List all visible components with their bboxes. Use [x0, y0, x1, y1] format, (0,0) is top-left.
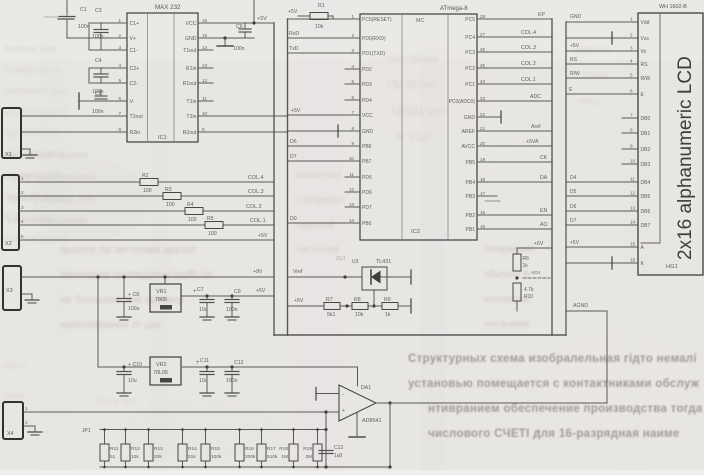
wire PB7 pin10 row — [288, 160, 361, 162]
wire PC4 pin27 row (COL.4) — [477, 36, 552, 38]
node op-amp output — [388, 401, 391, 404]
wire LCD DB5 row pin12 — [566, 195, 638, 197]
voltage regulator VR1 7805 — [150, 284, 181, 312]
wire +9V input row — [21, 276, 274, 278]
LCD pin numbers — [630, 17, 636, 263]
wire op-amp output down to bottom bus — [389, 403, 391, 467]
ground at C10 — [117, 392, 131, 394]
trimmer 4.7k — [513, 283, 521, 301]
voltage regulator VR2 78L05 — [150, 357, 181, 385]
wire +5V row to divider — [517, 247, 552, 249]
voltage reference U3 TL431 — [362, 267, 387, 290]
wire VR1 input drop — [164, 277, 166, 284]
IC2 left pin names — [362, 17, 392, 227]
wire AVCC pin20 row — [477, 145, 552, 147]
wire R7 to R8 — [340, 305, 352, 307]
ground at C12 — [225, 392, 239, 394]
wire X2 pin1 row (COL.4) — [19, 181, 140, 183]
ground at C8 — [117, 316, 131, 318]
ground bar at C5 — [78, 93, 80, 109]
ground at X4 — [28, 431, 42, 433]
wire PC0 pin23 row (ADC) — [477, 100, 552, 102]
wire X1 pin2 to R2in — [21, 131, 127, 133]
wire loop bottom edge y=335 — [274, 334, 566, 336]
tick terminal at LCD Vss — [611, 32, 613, 44]
wire X4 pin2 ground stub — [23, 425, 35, 427]
wire X2 pin5 row (+5V) — [19, 239, 274, 241]
wire PD6 pin12 stub — [345, 191, 360, 193]
resistor R2 100 — [140, 179, 158, 186]
wire PD7 pin13 stub — [345, 206, 360, 208]
IC1 right pin names — [183, 21, 197, 136]
wire AGND row to rail — [566, 310, 607, 312]
wire LCD Vo row pin3 — [566, 50, 638, 52]
tick terminal at LCD K — [611, 257, 613, 269]
wire X1 pin1 to T2out — [21, 115, 127, 117]
wire PB5 pin19 row (CK) — [477, 161, 552, 163]
resistor R19 2M — [317, 430, 319, 445]
ground at C7 — [200, 316, 214, 318]
tick terminal at divider out — [410, 299, 412, 313]
wire LCD bundle rail vertical x=566 — [565, 22, 567, 335]
wire op-amp V- to ground — [356, 413, 358, 436]
wire trimmer wiper (dashed) — [523, 277, 550, 279]
wire Vref row — [288, 276, 363, 278]
tick terminal at Vref out — [410, 270, 412, 284]
wire PB1 pin15 row (AO) — [477, 228, 552, 230]
wire LCD DB4 row pin11 — [566, 181, 638, 183]
node at C10 — [122, 365, 125, 368]
wire RxD row to PD0 pin2 — [288, 37, 361, 39]
wire R1out pin12 stub — [198, 82, 213, 84]
wire +input riser — [325, 412, 327, 467]
ground tick at IC2 GND — [337, 125, 339, 137]
ground at X1 — [23, 154, 37, 156]
IC2 pin numbers — [349, 14, 486, 229]
connector X1 — [2, 108, 21, 158]
node at C12 — [230, 365, 233, 368]
resistor R5 100 — [205, 222, 223, 229]
resistor R6 1k — [513, 254, 521, 271]
wire +5V output row of VR1 — [181, 295, 274, 297]
wire T2in pin10 row to MCU VCC row — [198, 115, 288, 117]
wire op-amp output to apex — [376, 402, 390, 404]
microcontroller IC2 ATmega-8 body — [360, 14, 477, 240]
fold mark near C1 — [44, 16, 58, 18]
resistor R12 10k — [125, 430, 127, 445]
resistor R14 51k — [182, 430, 184, 445]
wire LCD DB7 row pin14 — [566, 224, 638, 226]
wire R1in pin13 stub — [198, 67, 213, 69]
wire divider row from rail — [288, 305, 325, 307]
wire PC2 pin25 row (COL.2) — [477, 67, 552, 69]
resistor R7 5k1 — [324, 303, 340, 310]
wire C1+ pin1 loop — [89, 23, 127, 50]
tick terminal at inverting input — [315, 388, 317, 401]
wire PC5 pin28 row (KP) — [477, 18, 552, 20]
wire LCD DB6 row pin13 — [566, 210, 638, 212]
wire AGND riser — [606, 311, 608, 403]
node at VR2 branch — [96, 275, 99, 278]
wire LCD DB2 pin9 stub — [622, 148, 638, 150]
LCD module HG1 body — [638, 13, 703, 275]
op-amp DA1 AD8541 — [339, 385, 376, 421]
op-amp ... MAX232 IC1 body — [127, 13, 198, 142]
wire X2 pin2 row (COL.3) — [19, 195, 163, 197]
node at C9 — [230, 294, 233, 297]
wire top bus of divider network — [100, 429, 326, 431]
wire PD4 pin6 stub — [345, 99, 360, 101]
node R8-R9 junction — [372, 304, 375, 307]
LCD pin names — [641, 20, 651, 267]
wire X3 pin2 ground stub — [21, 293, 32, 295]
wire TxD row to PD1 pin3 — [288, 52, 361, 54]
wire LCD E row pin6 — [566, 93, 638, 95]
ground at op-amp — [349, 436, 365, 438]
resistor R9 1k — [382, 303, 398, 310]
node top bus to +input riser — [324, 428, 327, 431]
wire LCD Vdd row pin1 — [566, 21, 638, 23]
X2 pin numbers — [21, 176, 24, 239]
resistor R13 20k — [148, 430, 150, 445]
wire bus rail vertical x=287.5 — [287, 19, 289, 335]
node divider midpoint — [515, 276, 518, 279]
resistor R4 100 — [185, 208, 203, 215]
wire +5V left rail vertical x=274 — [273, 23, 275, 335]
wire R1 to RESET pin1 — [328, 16, 333, 19]
wire PD3 pin5 stub — [345, 83, 360, 85]
wire VR2 branch vertical — [97, 277, 99, 367]
ground at X3 — [25, 299, 39, 301]
wire PB3 pin17 stub — [477, 195, 497, 197]
wire TL431 ref to divider row — [373, 290, 375, 306]
wire VCC pin7 row — [288, 114, 361, 116]
wire +5V stub to R1 — [298, 15, 310, 17]
wire LCD DB3 pin10 stub — [622, 163, 638, 165]
wire PD5 pin11 stub — [345, 176, 360, 178]
node at C11 — [205, 365, 208, 368]
wire TL431 cathode out — [387, 276, 410, 278]
wire VR2 input row — [98, 366, 150, 368]
wire op-amp V+ supply — [357, 367, 359, 386]
resistor R8 10k — [352, 303, 368, 310]
wire T1out pin14 stub — [198, 49, 213, 51]
wire PB2 pin16 row (EN) — [477, 214, 552, 216]
wire LCD R/W row pin5 — [566, 77, 638, 79]
wire divider vertical top — [516, 248, 518, 254]
wire GND pin22 stub — [477, 116, 501, 118]
wire X2 pin4 row (COL.1) — [19, 224, 205, 226]
wire X1 ground stub — [21, 148, 30, 150]
wire T1in pin11 stub — [198, 100, 213, 102]
wire LCD backlight A row pin15 — [566, 246, 638, 248]
resistor R3 100 — [163, 193, 181, 200]
resistor R15 100k — [205, 430, 207, 445]
ground at MAX232 GND — [224, 38, 226, 45]
wire PB4 pin18 row (DA) — [477, 181, 552, 183]
wire LCD RS row pin4 — [566, 63, 638, 65]
wire bottom bus of divider network — [100, 466, 390, 468]
resistor R11 51 — [104, 430, 106, 445]
capacitor C13 1u0 (filter) — [319, 450, 333, 452]
wire R8 to R9 — [368, 305, 382, 307]
wire VCC pin16 to +5V node and right to rail — [198, 22, 274, 24]
resistor R17 510k — [261, 430, 263, 445]
wire PB0 pin14 row — [288, 222, 361, 224]
wire AREF pin21 row — [477, 130, 552, 132]
wire inverting input — [316, 393, 339, 395]
wire AGND output row — [390, 402, 607, 404]
wire V- pin6 to C5 — [79, 100, 127, 102]
wire +5V vertical to top edge (to C2) — [253, 0, 255, 23]
connector X2 — [2, 175, 19, 250]
wire LCD Vss row pin2 — [566, 37, 638, 39]
node Vref junction — [343, 275, 346, 278]
ground at C11 — [200, 392, 214, 394]
node at C8 — [122, 275, 125, 278]
wire divider bottom to AGND row — [516, 301, 518, 311]
wire RESET pin1 row — [288, 18, 361, 20]
resistor R16 200k — [239, 430, 241, 445]
ground at C9 — [225, 316, 239, 318]
IC1 pin numbers — [118, 18, 207, 132]
wire PC1 pin24 row (COL.1) — [477, 83, 552, 85]
wire V+ pin2 to C1 — [67, 37, 127, 39]
wire +5VA output row of VR2 — [181, 366, 358, 368]
connector X4 — [3, 402, 23, 439]
connector X3 — [3, 266, 21, 310]
wire LCD backlight K row pin16 — [566, 262, 638, 264]
wire PD2 pin4 stub — [345, 68, 360, 70]
wire X2 pin3 row (COL.2) — [19, 210, 185, 212]
wire GND pin15 row — [198, 37, 254, 39]
wire right rail vertical x=552 — [551, 19, 553, 335]
wire R2out pin9 row to MCU GND row — [198, 131, 288, 133]
IC2 right pin names — [449, 17, 476, 233]
wire R9 out — [398, 305, 410, 307]
wire X4 pin1 row to op-amp +input — [23, 411, 339, 413]
wire PB6 pin9 row — [288, 145, 361, 147]
wire PC3 pin26 row (COL.3) — [477, 51, 552, 53]
resistor R18 1M — [293, 430, 295, 445]
ground tick at IC2 GND pin22 — [500, 111, 502, 123]
IC1 left pin names — [130, 21, 144, 136]
wire LCD DB0 pin7 stub — [622, 117, 638, 119]
node at C7 — [205, 294, 208, 297]
wire LCD DB1 pin8 stub — [622, 132, 638, 134]
wire C2+ pin4 loop — [89, 68, 127, 83]
wire GND pin8 row — [288, 130, 361, 132]
